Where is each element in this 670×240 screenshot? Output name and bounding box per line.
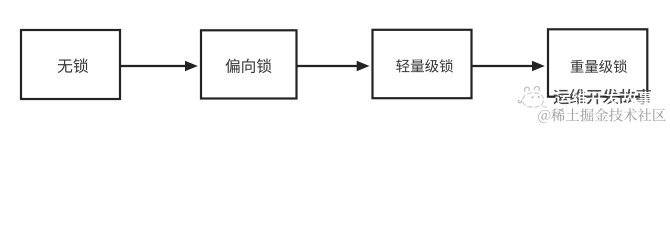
box 偏向锁	[201, 30, 297, 98]
arrow 3	[473, 65, 534, 67]
arrow 1	[121, 65, 187, 67]
watermark subtext @稀土掘金技术社区	[538, 108, 665, 123]
label 无锁	[58, 58, 88, 73]
box 无锁	[21, 30, 120, 99]
watermark logo	[518, 86, 546, 107]
box 重量级锁	[548, 29, 647, 96]
watermark text 运维开发故事	[553, 89, 651, 105]
label 轻量级锁	[396, 59, 453, 72]
arrow 2	[298, 65, 359, 67]
label 偏向锁	[225, 59, 271, 74]
label 重量级锁	[571, 60, 627, 73]
box 轻量级锁	[373, 30, 472, 98]
